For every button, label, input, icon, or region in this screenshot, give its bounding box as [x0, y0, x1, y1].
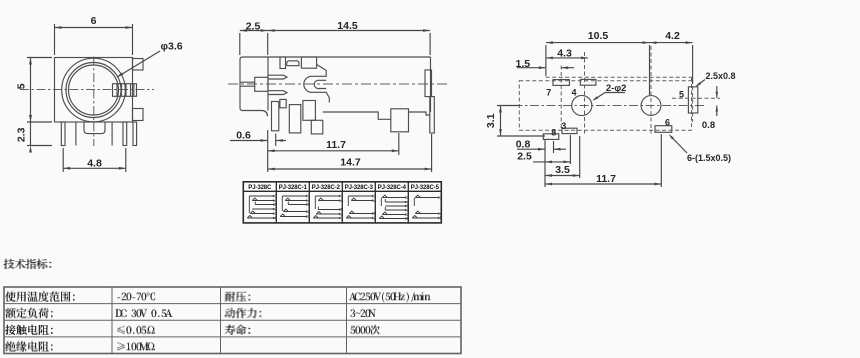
svg-text:3.5: 3.5 — [555, 164, 570, 176]
svg-text:4: 4 — [374, 198, 377, 203]
svg-text:2.3: 2.3 — [16, 127, 28, 142]
svg-text:PJ-328C-4: PJ-328C-4 — [378, 185, 407, 191]
svg-text:4: 4 — [341, 198, 344, 203]
svg-text:14.5: 14.5 — [337, 20, 358, 32]
svg-text:1.5: 1.5 — [515, 58, 530, 70]
svg-text:2.5x0.8: 2.5x0.8 — [706, 71, 736, 81]
svg-text:PJ-328C-5: PJ-328C-5 — [411, 185, 440, 191]
svg-text:2.5: 2.5 — [517, 151, 532, 163]
svg-text:4.2: 4.2 — [665, 30, 680, 42]
svg-text:φ3.6: φ3.6 — [161, 41, 183, 53]
svg-text:0.8: 0.8 — [516, 139, 531, 151]
svg-text:11.7: 11.7 — [596, 173, 616, 185]
svg-text:4.3: 4.3 — [557, 48, 572, 60]
svg-text:4.8: 4.8 — [87, 158, 102, 170]
svg-text:PJ-328C-3: PJ-328C-3 — [345, 185, 374, 191]
svg-text:5: 5 — [308, 202, 311, 207]
svg-text:PJ-328C-2: PJ-328C-2 — [312, 185, 341, 191]
svg-text:6: 6 — [665, 117, 670, 127]
svg-text:3: 3 — [341, 216, 344, 221]
svg-text:6-(1.5x0.5): 6-(1.5x0.5) — [687, 153, 731, 163]
svg-text:5: 5 — [16, 83, 28, 89]
svg-text:14.7: 14.7 — [340, 157, 361, 169]
svg-text:PJ-328C: PJ-328C — [248, 185, 272, 191]
svg-text:6: 6 — [91, 15, 97, 27]
svg-text:4: 4 — [571, 88, 576, 98]
svg-text:6: 6 — [407, 216, 410, 221]
svg-text:0.8: 0.8 — [702, 120, 715, 131]
svg-text:7: 7 — [546, 88, 551, 98]
svg-text:PJ-328C-1: PJ-328C-1 — [279, 185, 308, 191]
svg-text:10.5: 10.5 — [588, 30, 609, 42]
svg-text:3: 3 — [308, 214, 311, 219]
svg-text:8: 8 — [551, 128, 556, 138]
svg-text:3.1: 3.1 — [485, 113, 497, 128]
svg-text:2: 2 — [374, 216, 377, 221]
svg-text:6: 6 — [275, 216, 278, 221]
svg-text:11.7: 11.7 — [326, 139, 346, 151]
svg-text:3: 3 — [561, 121, 566, 131]
svg-text:2.5: 2.5 — [246, 20, 261, 32]
svg-text:0.6: 0.6 — [236, 129, 251, 141]
